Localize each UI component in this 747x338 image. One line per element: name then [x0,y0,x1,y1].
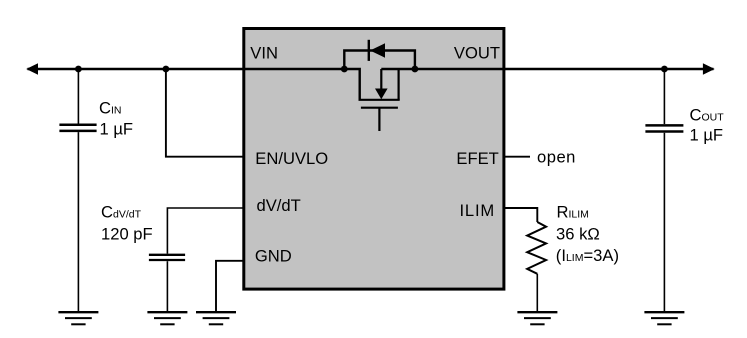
wire GND pin to ground [216,261,243,312]
svg-text:ILIM: ILIM [460,201,495,220]
capacitor C_IN [59,69,96,312]
wire dV/dT to capacitor [167,208,243,254]
svg-text:GND: GND [255,247,292,266]
ground (C_dV/dT) [147,312,187,324]
ground (GND pin) [196,312,236,324]
node junction dot CIN tap [75,66,82,73]
ground (C_OUT) [644,312,684,324]
svg-text:COUT: COUT [690,106,725,125]
svg-text:36 kΩ: 36 kΩ [556,224,600,243]
svg-text:open: open [537,147,576,166]
svg-text:1 µF: 1 µF [690,125,724,144]
wire EN/UVLO to rail [166,69,243,157]
svg-text:EN/UVLO: EN/UVLO [255,149,328,168]
diode D1 (body diode) [369,40,385,61]
ground (C_IN) [58,312,98,324]
label R_ILIM value [556,203,619,266]
resistor R_ILIM [527,222,546,312]
pin label GND [255,247,292,266]
wire body-diode branch [344,51,415,70]
label open [537,147,576,166]
node junction dot FET drain [341,66,348,73]
wire VIN rail (left, into drain) [28,69,360,100]
wire ILIM to resistor [505,208,537,222]
pin label EFET [456,149,498,168]
pin label dV/dT [257,196,301,215]
wire EFET stub (open) [505,156,530,158]
node junction dot FET source [412,66,419,73]
capacitor C_dV/dT [149,255,185,312]
pin label EN/UVLO [255,149,328,168]
pin label VOUT [454,44,500,63]
svg-text:120 pF: 120 pF [101,225,153,244]
node VOUT output arrow [703,63,715,75]
IC U1 body [244,29,504,290]
capacitor C_OUT [645,69,683,312]
svg-text:(ILIM=3A): (ILIM=3A) [556,246,619,265]
node VIN input arrow [26,63,38,75]
ground (R_ILIM) [517,312,557,324]
pin label VIN [250,44,278,63]
svg-text:CIN: CIN [99,99,121,118]
svg-text:EFET: EFET [456,149,498,168]
transistor Q1 body arrow [375,69,388,99]
svg-text:dV/dT: dV/dT [257,196,301,215]
transistor Q1 internal FET channel [359,68,400,100]
svg-text:1 µF: 1 µF [100,119,134,138]
label C_IN value [99,99,133,139]
label C_OUT value [690,106,725,145]
wire VOUT rail (right, from source) [381,68,713,70]
transistor Q1 gate lead [378,109,380,132]
svg-text:VOUT: VOUT [454,44,500,63]
pin label ILIM [460,201,495,220]
node junction dot EN tap [163,66,170,73]
svg-text:CdV/dT: CdV/dT [101,202,142,221]
svg-text:VIN: VIN [250,44,278,63]
label C_dV/dT value [101,202,153,243]
node junction dot COUT tap [661,66,668,73]
svg-text:RILIM: RILIM [557,203,589,222]
transistor Q1 gate plate [361,107,398,109]
